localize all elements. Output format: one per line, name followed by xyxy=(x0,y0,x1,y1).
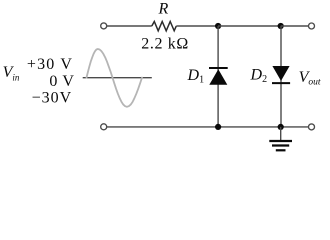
svg-text:−30V: −30V xyxy=(32,90,72,107)
junction bottom of D1 xyxy=(215,124,221,130)
source sine wave axis xyxy=(83,77,152,79)
diode D1 cathode bar xyxy=(209,67,228,69)
diode D1 triangle xyxy=(209,69,227,84)
svg-text:Vin: Vin xyxy=(3,64,20,82)
junction node A top of D1 xyxy=(215,23,221,29)
output terminal top-right xyxy=(309,23,315,29)
input terminal top-left xyxy=(101,23,107,29)
output terminal bottom-right xyxy=(309,124,315,130)
ground xyxy=(269,141,292,150)
wire top: input terminal to resistor xyxy=(107,25,152,27)
svg-text:Vout: Vout xyxy=(299,69,321,88)
resistor R xyxy=(152,22,177,31)
source sine wave xyxy=(87,49,143,107)
svg-text:0 V: 0 V xyxy=(49,73,74,90)
svg-text:+30 V: +30 V xyxy=(27,56,72,73)
wire top: node B to output terminal xyxy=(281,25,309,27)
wire bottom xyxy=(107,126,309,128)
wire top: resistor to node A xyxy=(176,25,218,27)
svg-text:D2: D2 xyxy=(250,67,268,86)
diode D2 cathode bar xyxy=(272,82,290,84)
ground stub wire xyxy=(280,127,282,140)
diode D2 triangle xyxy=(272,66,289,81)
wire top: node A to node B xyxy=(218,25,281,27)
junction node B top of D2 xyxy=(278,23,284,29)
wire D2 branch vertical xyxy=(280,26,282,127)
svg-text:D1: D1 xyxy=(187,67,205,86)
wire D1 branch vertical xyxy=(217,26,219,127)
svg-text:R: R xyxy=(158,1,169,18)
junction bottom of D2 xyxy=(278,124,284,130)
input terminal bottom-left xyxy=(101,124,107,130)
svg-text:2.2 kΩ: 2.2 kΩ xyxy=(141,36,188,53)
